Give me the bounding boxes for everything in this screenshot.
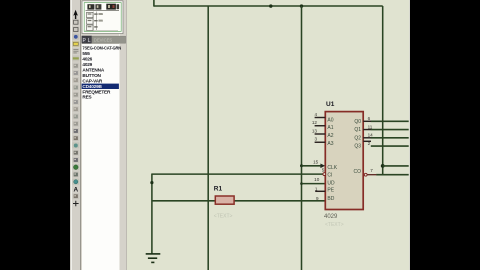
svg-text:Q2: Q2 [354, 135, 361, 141]
toolbar column background [71, 0, 82, 270]
application window area [70, 0, 410, 270]
wire: resistor net left segment [152, 200, 215, 202]
pin name A1 [327, 125, 333, 131]
svg-text:12: 12 [312, 120, 318, 125]
pin number 14 [368, 133, 374, 138]
pin name A3 [327, 141, 333, 147]
pin stub A1 [315, 125, 326, 127]
pin number 3 [314, 137, 317, 142]
pin name Q1 [354, 127, 361, 133]
pin number 12 [312, 120, 318, 125]
svg-text:CD4029B: CD4029B [82, 84, 102, 89]
wire: vertical branch to CLK/UD [301, 6, 303, 270]
svg-text:<TEXT>: <TEXT> [214, 214, 233, 220]
svg-text:1: 1 [315, 187, 318, 192]
svg-text:11: 11 [368, 124, 373, 129]
svg-text:4029: 4029 [324, 214, 338, 220]
pin CLK arrowhead [320, 164, 325, 169]
svg-text:FREQMETER: FREQMETER [82, 89, 111, 94]
pin number 6 [368, 116, 371, 121]
pin CO inversion bubble [364, 173, 367, 176]
svg-text:BD: BD [327, 196, 334, 202]
svg-text:CAP-VAR: CAP-VAR [82, 78, 103, 83]
wire: Q2 output to right edge [371, 137, 409, 139]
svg-text:Q1: Q1 [354, 127, 361, 133]
svg-text:CO: CO [354, 169, 362, 175]
wire: CI wire from left vertical to U1 [152, 173, 323, 175]
pin name PE [327, 188, 334, 194]
wire: long vertical from top rail to bottom edge [207, 6, 209, 270]
svg-text:9: 9 [316, 196, 319, 201]
svg-text:6: 6 [368, 116, 371, 121]
svg-text:13: 13 [312, 128, 318, 133]
pin number 7 [370, 168, 373, 173]
wire: CO output wire to right edge [376, 174, 409, 176]
right window edge light line [409, 0, 411, 270]
list white area [82, 44, 120, 270]
pin number 10 [314, 177, 320, 182]
svg-text:7: 7 [370, 168, 373, 173]
svg-text:BUTTON: BUTTON [82, 73, 101, 78]
svg-text:PE: PE [327, 188, 334, 194]
node junction dot at CLK branch [300, 164, 303, 167]
wire: branch to right edge at junction [383, 165, 409, 167]
wire: resistor net right segment to U1 BD pin [234, 200, 325, 202]
pin name A2 [327, 133, 333, 139]
wire: UD wire into U1 [302, 183, 326, 185]
svg-text:A0: A0 [327, 117, 333, 123]
ground [146, 254, 161, 263]
svg-text:DEVICES: DEVICES [94, 37, 113, 42]
pin stub A0 [315, 117, 326, 119]
resistor R1 reference label [214, 186, 223, 193]
op IC U1 body [325, 112, 363, 210]
pin number 4 [314, 112, 317, 117]
pin number 13 [312, 128, 318, 133]
svg-text:L: L [88, 38, 91, 44]
svg-text:7SEG-COM-CAT-GRN: 7SEG-COM-CAT-GRN [82, 46, 121, 51]
svg-text:4: 4 [314, 112, 317, 117]
svg-text:Q0: Q0 [354, 119, 361, 125]
pin stub CO [367, 174, 376, 176]
pin name CO [354, 169, 362, 175]
pin number 2 [368, 141, 371, 146]
pin number 5 [322, 167, 325, 172]
node junction dot on right vertical [381, 164, 385, 168]
U1 reference label [326, 101, 335, 108]
pin name BD [327, 196, 334, 202]
svg-text:A3: A3 [327, 141, 333, 147]
pin name CI [327, 173, 332, 179]
svg-text:4029: 4029 [82, 62, 92, 67]
svg-text:RES: RES [82, 95, 91, 100]
wire: left vertical down to ground [151, 174, 153, 254]
pin stub PE [315, 190, 325, 192]
resistor R1 hidden value text [214, 214, 233, 220]
panel separator line [80, 0, 81, 270]
wire: Q1 output to right edge [371, 129, 409, 131]
svg-text:4026: 4026 [82, 57, 92, 62]
splitter shading [119, 0, 120, 270]
U1 hidden property text [325, 222, 344, 228]
wire: CLK wire into U1 [302, 165, 321, 167]
pin number 11 [368, 124, 373, 129]
svg-text:ANTENNA: ANTENNA [82, 67, 104, 72]
pin name CLK [327, 165, 337, 171]
svg-text:A: A [73, 186, 78, 193]
pin stub Q1 [363, 129, 371, 131]
svg-text:UD: UD [327, 181, 335, 187]
svg-text:R1: R1 [214, 186, 223, 193]
svg-text:555: 555 [82, 51, 90, 56]
pin number 9 [316, 196, 319, 201]
toolbar mode icons [72, 10, 79, 207]
svg-text:10: 10 [314, 177, 320, 182]
pin CI inversion bubble [323, 173, 326, 176]
overview minimap window [82, 1, 123, 34]
pin number 1 [315, 187, 318, 192]
svg-text:2: 2 [368, 141, 371, 146]
pin stub Q0 [363, 120, 371, 122]
pin stub Q2 [363, 137, 371, 139]
pin stub A3 [315, 141, 326, 143]
svg-text:14: 14 [368, 133, 374, 138]
pin name A0 [327, 117, 333, 123]
node junction dot on top rail [269, 4, 272, 7]
P button [82, 36, 87, 44]
pin number 15 [313, 159, 319, 164]
pin name Q0 [354, 119, 361, 125]
svg-text:CLK: CLK [327, 165, 337, 171]
svg-text:5: 5 [322, 167, 325, 172]
pin name UD [327, 181, 335, 187]
wire: top-left stub going up off-screen [153, 0, 155, 7]
node junction dot on left vertical [150, 181, 153, 184]
svg-text:A2: A2 [327, 133, 333, 139]
L button [87, 36, 92, 44]
wire: Q3 output to right edge [371, 145, 409, 147]
wire: right vertical from top rail down to CO [382, 6, 384, 175]
device list items [82, 46, 122, 100]
svg-text:U1: U1 [326, 101, 335, 108]
resistor R1 body [215, 196, 234, 204]
svg-text:<TEXT>: <TEXT> [325, 222, 344, 228]
pin name Q3 [354, 144, 361, 150]
svg-text:CI: CI [327, 173, 332, 179]
svg-text:3: 3 [314, 137, 317, 142]
U1 value label 4029 [324, 214, 338, 220]
svg-text:A1: A1 [327, 125, 333, 131]
svg-text:15: 15 [313, 159, 319, 164]
pin stub A2 [315, 133, 326, 135]
schematic sheet [127, 0, 409, 270]
node junction dot at UD branch [300, 182, 303, 185]
wire: top power rail [154, 5, 383, 7]
pin name Q2 [354, 135, 361, 141]
svg-text:Q3: Q3 [354, 144, 361, 150]
DEVICES title sunken bar [92, 36, 126, 43]
node junction dot where CLK branch leaves top rail [300, 4, 303, 7]
object selector panel bg [81, 0, 126, 270]
wire: Q0 output to right edge [371, 120, 409, 122]
pin stub Q3 [363, 140, 371, 142]
